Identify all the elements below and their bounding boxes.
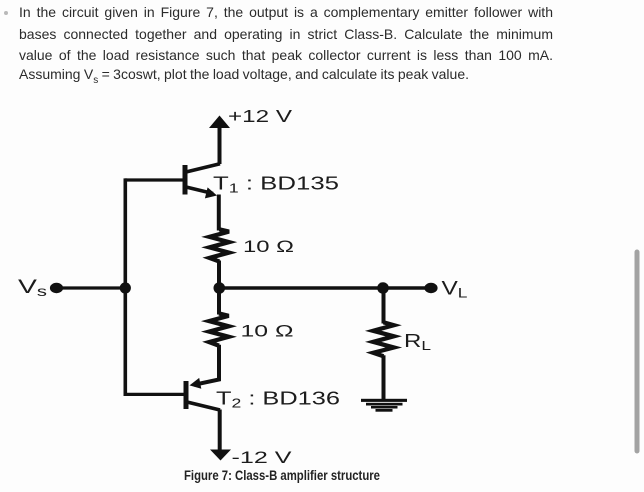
resistor R1 10 ohm (upper) <box>210 229 230 261</box>
resistor RL <box>373 322 394 356</box>
wire T1 base <box>125 178 184 181</box>
node Vs junction <box>120 282 131 293</box>
wire node to RL <box>382 288 386 324</box>
wire mid node to VL <box>219 286 426 289</box>
svg-text:+12 V: +12 V <box>228 106 292 126</box>
svg-text:10 Ω: 10 Ω <box>243 238 294 256</box>
svg-text:-12 V: -12 V <box>232 449 292 467</box>
terminal Vs <box>50 283 63 293</box>
svg-text:RL: RL <box>404 331 431 353</box>
wire R1 to mid node <box>217 261 221 290</box>
svg-text:VL: VL <box>442 279 469 301</box>
wire bases vertical <box>124 178 128 396</box>
-12 V supply arrow <box>210 450 231 461</box>
wire mid node to R2 <box>217 288 221 315</box>
stray mark top-left <box>4 11 8 15</box>
ground <box>361 399 407 412</box>
resistor R2 10 ohm (lower) <box>209 314 229 346</box>
scanned page fold line (right edge) <box>635 252 640 451</box>
transistor Q1 T1 BD135 <box>185 164 220 199</box>
svg-text:T1 : BD135: T1 : BD135 <box>213 174 339 196</box>
wire T2 collector down <box>218 410 222 451</box>
wire RL to ground <box>382 355 386 400</box>
+12 V supply arrow <box>209 116 230 165</box>
node mid junction <box>214 282 226 294</box>
wire R2 to T2 emitter <box>194 345 219 385</box>
wire T2 base <box>125 393 184 396</box>
wire Vs to junction <box>58 286 125 289</box>
terminal VL <box>424 283 437 293</box>
wire T1 emitter down <box>217 195 221 231</box>
svg-text:10 Ω: 10 Ω <box>241 323 294 341</box>
transistor Q2 T2 BD136 <box>186 378 220 410</box>
svg-text:Vs: Vs <box>18 277 47 299</box>
node RL junction <box>377 282 389 294</box>
problem statement paragraph <box>19 2 553 92</box>
figure caption <box>184 468 419 483</box>
svg-text:T2 : BD136: T2 : BD136 <box>216 389 340 411</box>
